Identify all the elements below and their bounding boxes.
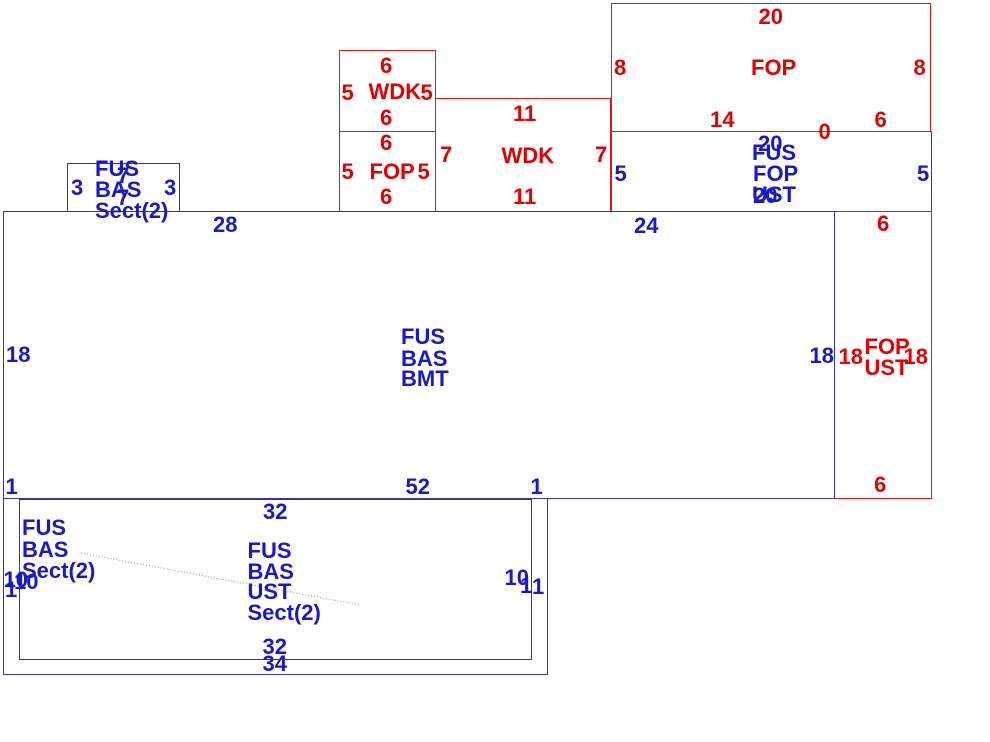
name BAS of main rect bbox=[401, 348, 447, 369]
dim 1 bottom-left of main rect bbox=[6, 476, 18, 497]
blue rect FUS BAS BMT (main) bbox=[3, 211, 835, 499]
dim 52 bottom of main rect bbox=[406, 476, 430, 497]
red rect FOP (small, lower) bbox=[339, 131, 436, 212]
dim 5 right of WDK small bbox=[421, 82, 433, 103]
name WDK middle bbox=[502, 145, 555, 166]
dim 1 right of bottom b bbox=[532, 576, 544, 597]
dim 11 bottom of WDK middle bbox=[513, 186, 536, 207]
name FUS of main rect bbox=[401, 326, 445, 347]
name FOP large bbox=[751, 57, 796, 78]
dim 14 bottom of FOP large bbox=[710, 109, 734, 130]
name FOP of FOP UST bbox=[865, 336, 910, 357]
red line left edge of FUS FOP UST bbox=[611, 131, 612, 212]
dim 6 top of FOP UST bbox=[877, 213, 889, 234]
name BAS of Sect2 top-left bbox=[95, 179, 141, 200]
dim 6 bottom of FOP UST bbox=[874, 474, 886, 495]
blue rect bottom outer FUS BAS Sect(2) bbox=[3, 498, 548, 675]
dim 7 top of Sect2 top-left bbox=[117, 165, 129, 186]
dim 11 top of WDK middle bbox=[513, 103, 536, 124]
dim 1 bottom-right of main rect bbox=[531, 476, 543, 497]
dim 32 bottom of bottom inner bbox=[263, 636, 287, 657]
dim 5 left of FUS FOP UST bbox=[615, 163, 627, 184]
dim 32 top of bottom inner bbox=[263, 501, 287, 522]
dim 20 top of FOP large bbox=[759, 6, 783, 27]
dim 10 left inner of bottom bbox=[14, 571, 38, 592]
dim 24 top of main rect bbox=[634, 215, 658, 236]
dim 5 right of FUS FOP UST bbox=[917, 163, 929, 184]
dim 28 top of main rect bbox=[213, 214, 237, 235]
dim 5 right of FOP small bbox=[418, 161, 430, 182]
dim 6 bottom of FOP large bbox=[875, 109, 887, 130]
name Sect(2) of bottom-left bbox=[22, 560, 95, 581]
dim 18 left of FOP UST bbox=[839, 346, 863, 367]
dim 7 left of WDK middle bbox=[440, 144, 452, 165]
dim 0 bottom of FOP large bbox=[819, 121, 831, 142]
dim 20 bottom of FUS FOP UST bbox=[753, 185, 777, 206]
dim 7 bottom of Sect2 top-left bbox=[117, 187, 129, 208]
red rect FOP UST (right column) bbox=[834, 211, 932, 499]
name FUS of FUS FOP UST bbox=[752, 142, 796, 163]
name UST of FOP UST bbox=[865, 357, 909, 378]
name UST of FUS FOP UST bbox=[752, 184, 796, 205]
dim 8 left of FOP large bbox=[614, 57, 626, 78]
dim 1 left of bottom bbox=[5, 579, 17, 600]
name UST of bottom center bbox=[248, 581, 292, 602]
name FUS of bottom-left bbox=[22, 517, 66, 538]
dim 10 right of bottom inner bbox=[505, 567, 529, 588]
dim 18 left of main rect bbox=[6, 344, 30, 365]
dim 5 left of WDK small bbox=[342, 82, 354, 103]
red rect WDK (middle) bbox=[435, 98, 611, 212]
name FUS of Sect2 top-left bbox=[95, 158, 139, 179]
dim 18 right of FOP UST bbox=[904, 346, 928, 367]
dim 1 right of bottom a bbox=[520, 575, 532, 596]
red rect FOP (large, top-right) bbox=[611, 3, 931, 132]
dim 6 bottom of FOP small bbox=[380, 186, 392, 207]
name FOP of FUS FOP UST bbox=[753, 163, 798, 184]
dim 10 left outer of bottom bbox=[4, 569, 28, 590]
blue rect FUS BAS Sect(2) top-left bbox=[67, 163, 180, 212]
name FOP small bbox=[370, 161, 415, 182]
name Sect(2) of Sect2 top-left bbox=[95, 200, 168, 221]
name WDK small bbox=[369, 81, 422, 102]
dim 34 bottom of bottom outer bbox=[263, 653, 287, 674]
blue rect FUS FOP UST bbox=[611, 131, 932, 212]
dim 5 left of FOP small bbox=[342, 161, 354, 182]
dim 6 top of WDK small bbox=[380, 55, 392, 76]
red rect WDK (small, upper) bbox=[339, 50, 436, 132]
blue rect bottom inner FUS BAS UST Sect(2) bbox=[19, 499, 532, 660]
dim 8 right of FOP large bbox=[914, 57, 926, 78]
name BAS of bottom center bbox=[248, 561, 294, 582]
dim 3 left of Sect2 top-left bbox=[71, 177, 83, 198]
dim 20 top of FUS FOP UST bbox=[758, 133, 782, 154]
name BAS of bottom-left bbox=[22, 539, 68, 560]
dim 6 bottom of WDK small bbox=[380, 107, 392, 128]
dim 3 right of Sect2 top-left bbox=[164, 177, 176, 198]
dim 7 right of WDK middle bbox=[595, 144, 607, 165]
name BMT of main rect bbox=[401, 368, 449, 389]
dim 18 right of main rect bbox=[810, 345, 834, 366]
name FUS of bottom center bbox=[248, 540, 292, 561]
name Sect(2) of bottom center bbox=[248, 602, 321, 623]
dim 6 top of FOP small bbox=[380, 132, 392, 153]
